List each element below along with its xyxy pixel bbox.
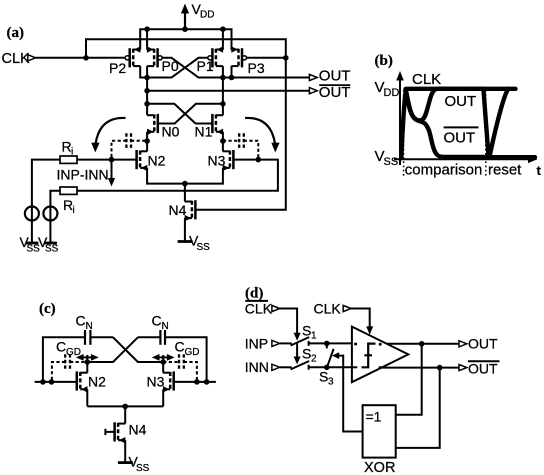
transistor N1 xyxy=(212,114,223,135)
svg-text:CLK: CLK xyxy=(314,301,342,317)
svg-text:OUT: OUT xyxy=(319,68,351,85)
svg-text:OUT: OUT xyxy=(445,93,477,110)
node dot left rail CN tap xyxy=(40,379,46,385)
transistor N0 xyxy=(147,114,158,135)
svg-text:P2: P2 xyxy=(109,60,126,76)
svg-text:N3: N3 xyxy=(208,153,226,169)
waveform OUTbar xyxy=(406,89,490,157)
label CLKbar with overline xyxy=(245,301,273,317)
arrowhead CLKbar at S2 xyxy=(294,357,301,365)
wire OUTbar line xyxy=(147,90,310,92)
wire CLKbar to switches xyxy=(280,309,297,334)
svg-text:N4: N4 xyxy=(169,202,187,218)
node dot OUTbar (d) xyxy=(437,365,443,371)
transistor P2 xyxy=(125,46,140,67)
node dot right rail CN tap xyxy=(204,379,210,385)
svg-text:N3: N3 xyxy=(147,374,165,390)
wire cross-coupling right CN to N2 drain xyxy=(87,337,138,362)
resistor Ri top xyxy=(60,139,77,164)
svg-text:(d): (d) xyxy=(245,286,263,302)
wire S2 to comparator minus input xyxy=(309,366,352,368)
svg-text:N2: N2 xyxy=(88,374,106,390)
wire INP to switch S1 xyxy=(280,342,292,344)
VDD power symbol xyxy=(181,1,215,29)
wire N3c drain up xyxy=(162,362,164,373)
wire N1 source down xyxy=(222,132,224,141)
capacitor Cgd right (dashed) xyxy=(163,339,199,382)
svg-text:(a): (a) xyxy=(7,25,25,41)
svg-text:C: C xyxy=(152,313,162,329)
wire N4c gate stub xyxy=(105,429,114,435)
svg-text:XOR: XOR xyxy=(364,460,395,475)
svg-text:reset: reset xyxy=(488,161,522,178)
wire N4c drain up xyxy=(124,406,126,423)
node dot CLK at P3 gate xyxy=(283,55,289,61)
svg-text:N2: N2 xyxy=(148,153,166,169)
transistor N2 (c) xyxy=(77,371,88,392)
node dot left x91 xyxy=(144,88,150,94)
svg-text:N: N xyxy=(86,321,93,332)
op-amp comparator U1 xyxy=(352,327,408,383)
OUTbar terminal xyxy=(309,88,317,94)
wire INP: source to resistor to N2 gate xyxy=(32,160,60,243)
svg-text:2: 2 xyxy=(311,354,317,365)
wire tail rail (c) xyxy=(87,405,163,407)
waveform OUTbar reset rise xyxy=(489,89,508,158)
svg-text:CLK: CLK xyxy=(2,51,31,67)
switch S3 xyxy=(319,343,334,387)
wire N0 drain up xyxy=(146,104,148,115)
node dot on VDD rail (P1 source) xyxy=(220,26,226,32)
node dot tail xyxy=(182,181,188,187)
svg-text:OUT: OUT xyxy=(444,130,476,147)
coupling arrows at N3c drain xyxy=(152,354,175,362)
svg-text:N: N xyxy=(162,321,169,332)
current source right xyxy=(43,207,57,221)
svg-text:CLK: CLK xyxy=(412,71,441,88)
svg-text:N0: N0 xyxy=(162,124,180,140)
node dot left x77 xyxy=(144,75,150,81)
node dot N3c drain xyxy=(160,359,166,365)
label VSS xyxy=(375,148,399,168)
wire N1 drain up xyxy=(222,104,224,115)
arrowhead CLK at comparator xyxy=(366,326,373,334)
node dot right rail Cgd tap xyxy=(194,379,200,385)
wire P0 source to rail xyxy=(146,29,148,50)
curved arrow left xyxy=(91,118,125,153)
transistor N4 xyxy=(185,200,196,221)
svg-text:3: 3 xyxy=(328,377,334,388)
svg-text:1: 1 xyxy=(311,331,317,342)
wire N4 source to ground xyxy=(184,218,186,241)
ground VSS right xyxy=(38,234,59,255)
wire P2 drain down xyxy=(140,66,147,77)
capacitor Cgd left (dashed) xyxy=(112,133,148,159)
svg-text:SS: SS xyxy=(197,242,211,253)
waveform CLK xyxy=(401,89,535,159)
transistor N4 (c) xyxy=(115,422,126,443)
svg-text:DD: DD xyxy=(200,10,214,21)
wire cross-coupling left CN to N3 drain xyxy=(113,337,163,362)
node dot INN at S3 xyxy=(324,365,330,371)
node dot N3 drain xyxy=(220,138,226,144)
svg-text:OUT: OUT xyxy=(468,361,498,377)
svg-text:(c): (c) xyxy=(39,301,56,317)
wire CLK upper rail to right column xyxy=(86,39,286,58)
wire P3 drain down xyxy=(231,66,233,77)
svg-text:(b): (b) xyxy=(375,53,393,69)
node dot INP at Cgd tap xyxy=(109,157,115,163)
svg-text:INP: INP xyxy=(245,335,268,351)
INP-INN label with arrow xyxy=(57,160,116,187)
INN input terminal xyxy=(272,364,280,370)
svg-text:SS: SS xyxy=(384,156,399,168)
transistor N2 xyxy=(137,150,148,171)
INP input terminal xyxy=(272,340,280,346)
svg-text:OUT: OUT xyxy=(468,336,498,352)
OUT terminal xyxy=(309,74,317,80)
right rail / N3 gate wire xyxy=(174,381,216,383)
svg-text:C: C xyxy=(175,339,185,355)
svg-text:i: i xyxy=(71,147,73,158)
OUTbar terminal (d) xyxy=(459,365,467,371)
svg-text:N4: N4 xyxy=(129,422,147,438)
capacitor CN right xyxy=(138,313,207,382)
wire right column vertical xyxy=(222,78,224,104)
arrowhead CLKbar at S1 xyxy=(294,333,301,341)
wire OUT to XOR input xyxy=(396,344,422,415)
transistor P3 xyxy=(231,46,246,67)
wire CLK down to N4 gate xyxy=(196,58,286,210)
wire S1 to comparator plus input xyxy=(309,342,352,344)
svg-text:C: C xyxy=(76,313,86,329)
y axis xyxy=(396,71,404,165)
wire CLKbar S1 to S2 xyxy=(296,343,298,356)
ground VSS (c) xyxy=(118,454,150,475)
node dot N2 drain xyxy=(144,138,150,144)
svg-text:OUT: OUT xyxy=(319,84,351,101)
node dot left x104 xyxy=(144,101,150,107)
wire N4c source to ground xyxy=(124,440,126,462)
node dot tail (c) xyxy=(122,404,128,410)
svg-text:INN: INN xyxy=(245,359,269,375)
wire INN: source to resistor to N3 gate xyxy=(50,191,60,243)
wire P1 source to rail xyxy=(222,29,224,50)
wire INN to switch S2 xyxy=(280,366,292,368)
svg-text:GD: GD xyxy=(185,347,200,358)
CLK input terminal (d) xyxy=(343,305,351,311)
svg-text:CLK: CLK xyxy=(245,301,273,317)
node dot left rail Cgd tap xyxy=(49,379,55,385)
wire P-pair cross coupling P0 gate to right node xyxy=(162,58,223,78)
wire N2c drain up xyxy=(86,362,88,373)
svg-text:=1: =1 xyxy=(366,409,382,425)
switch S2 xyxy=(291,346,317,370)
CLK input terminal xyxy=(28,55,36,61)
resistor Ri bottom xyxy=(60,187,77,216)
curved arrow right xyxy=(245,118,280,153)
wire N2c source down xyxy=(86,389,88,406)
svg-text:S: S xyxy=(302,323,311,339)
wire N-pair cross coupling N0 gate to right node xyxy=(158,104,223,124)
node dot INN at N3 gate tap xyxy=(255,157,261,163)
dotted line reset start xyxy=(485,90,487,178)
wire CLK to P2 gate xyxy=(36,57,126,59)
capacitor Cgd right (dashed) xyxy=(223,133,258,159)
node dot INP at S3 xyxy=(324,341,330,347)
wire N3 drain up xyxy=(222,141,224,151)
wire N2 drain up xyxy=(146,141,148,151)
wire OUT line (d) xyxy=(387,343,460,345)
transistor N3 (c) xyxy=(163,371,174,392)
dotted line comparison start xyxy=(403,90,405,178)
svg-text:i: i xyxy=(73,205,75,216)
wire S3 control from XOR xyxy=(332,352,363,431)
node dot right N1 drain xyxy=(220,101,226,107)
label OUTbar (d) xyxy=(468,361,500,377)
OUT terminal (d) xyxy=(459,341,467,347)
svg-text:t: t xyxy=(537,163,542,178)
CLKbar input terminal xyxy=(272,305,280,311)
coupling arrows at N2c drain xyxy=(76,354,99,362)
current source left xyxy=(25,207,39,221)
XOR gate U2 xyxy=(363,405,396,475)
node dot right P3 drain xyxy=(229,75,235,81)
label OUTbar (b) xyxy=(444,127,479,146)
VDD rail wire xyxy=(140,29,231,50)
svg-text:INP-INN: INP-INN xyxy=(57,167,109,183)
svg-text:P1: P1 xyxy=(197,58,214,74)
svg-text:S: S xyxy=(302,346,311,362)
node dot N2c drain xyxy=(85,359,91,365)
switch S1 xyxy=(291,323,317,346)
wire OUTbar to XOR input xyxy=(396,368,440,448)
wire N4 drain up xyxy=(184,184,186,202)
ground VSS under N4 xyxy=(178,233,211,254)
transistor N3 xyxy=(223,150,234,171)
svg-text:comparison: comparison xyxy=(405,161,483,178)
capacitor CN left xyxy=(43,313,113,382)
svg-text:SS: SS xyxy=(136,463,150,474)
wire OUT line xyxy=(223,77,310,79)
node CLK junction xyxy=(83,55,89,61)
node dot on VDD rail (VDD stem) xyxy=(182,26,188,32)
wire P-pair cross coupling P1 gate to left node xyxy=(147,58,208,78)
label VDD xyxy=(375,79,400,99)
svg-text:DD: DD xyxy=(384,87,400,99)
svg-text:S: S xyxy=(319,369,328,385)
svg-text:C: C xyxy=(56,339,66,355)
waveform OUT xyxy=(406,89,516,121)
wire P3 gate lead xyxy=(246,57,285,59)
wire tail rail N2/N3 sources xyxy=(147,168,223,184)
wire P1 drain down xyxy=(222,66,224,77)
wire N0 source down xyxy=(146,132,148,141)
label OUTbar xyxy=(319,84,350,86)
node dot OUT (d) xyxy=(419,341,425,347)
wire N3c source down xyxy=(162,389,164,406)
transistor P1 xyxy=(208,46,223,67)
svg-text:SS: SS xyxy=(45,244,59,255)
capacitor Cgd left (dashed) xyxy=(52,339,87,382)
wire P0 drain down xyxy=(146,66,148,77)
node dot on VDD rail (P0 source) xyxy=(144,26,150,32)
svg-text:N1: N1 xyxy=(195,124,213,140)
wire CLK to comparator xyxy=(351,309,370,327)
wire left column node (OUTbar net vertical) xyxy=(146,78,148,104)
wire OUTbar line (d) xyxy=(382,367,460,369)
ground VSS left xyxy=(20,234,41,255)
svg-text:P3: P3 xyxy=(248,60,265,76)
transistor P0 xyxy=(147,46,162,67)
wire N-pair cross coupling N1 gate to left node xyxy=(147,104,212,124)
node dot right P1 drain xyxy=(220,75,226,81)
x axis with arrow xyxy=(394,156,542,179)
left rail / N2 gate wire xyxy=(35,381,77,383)
